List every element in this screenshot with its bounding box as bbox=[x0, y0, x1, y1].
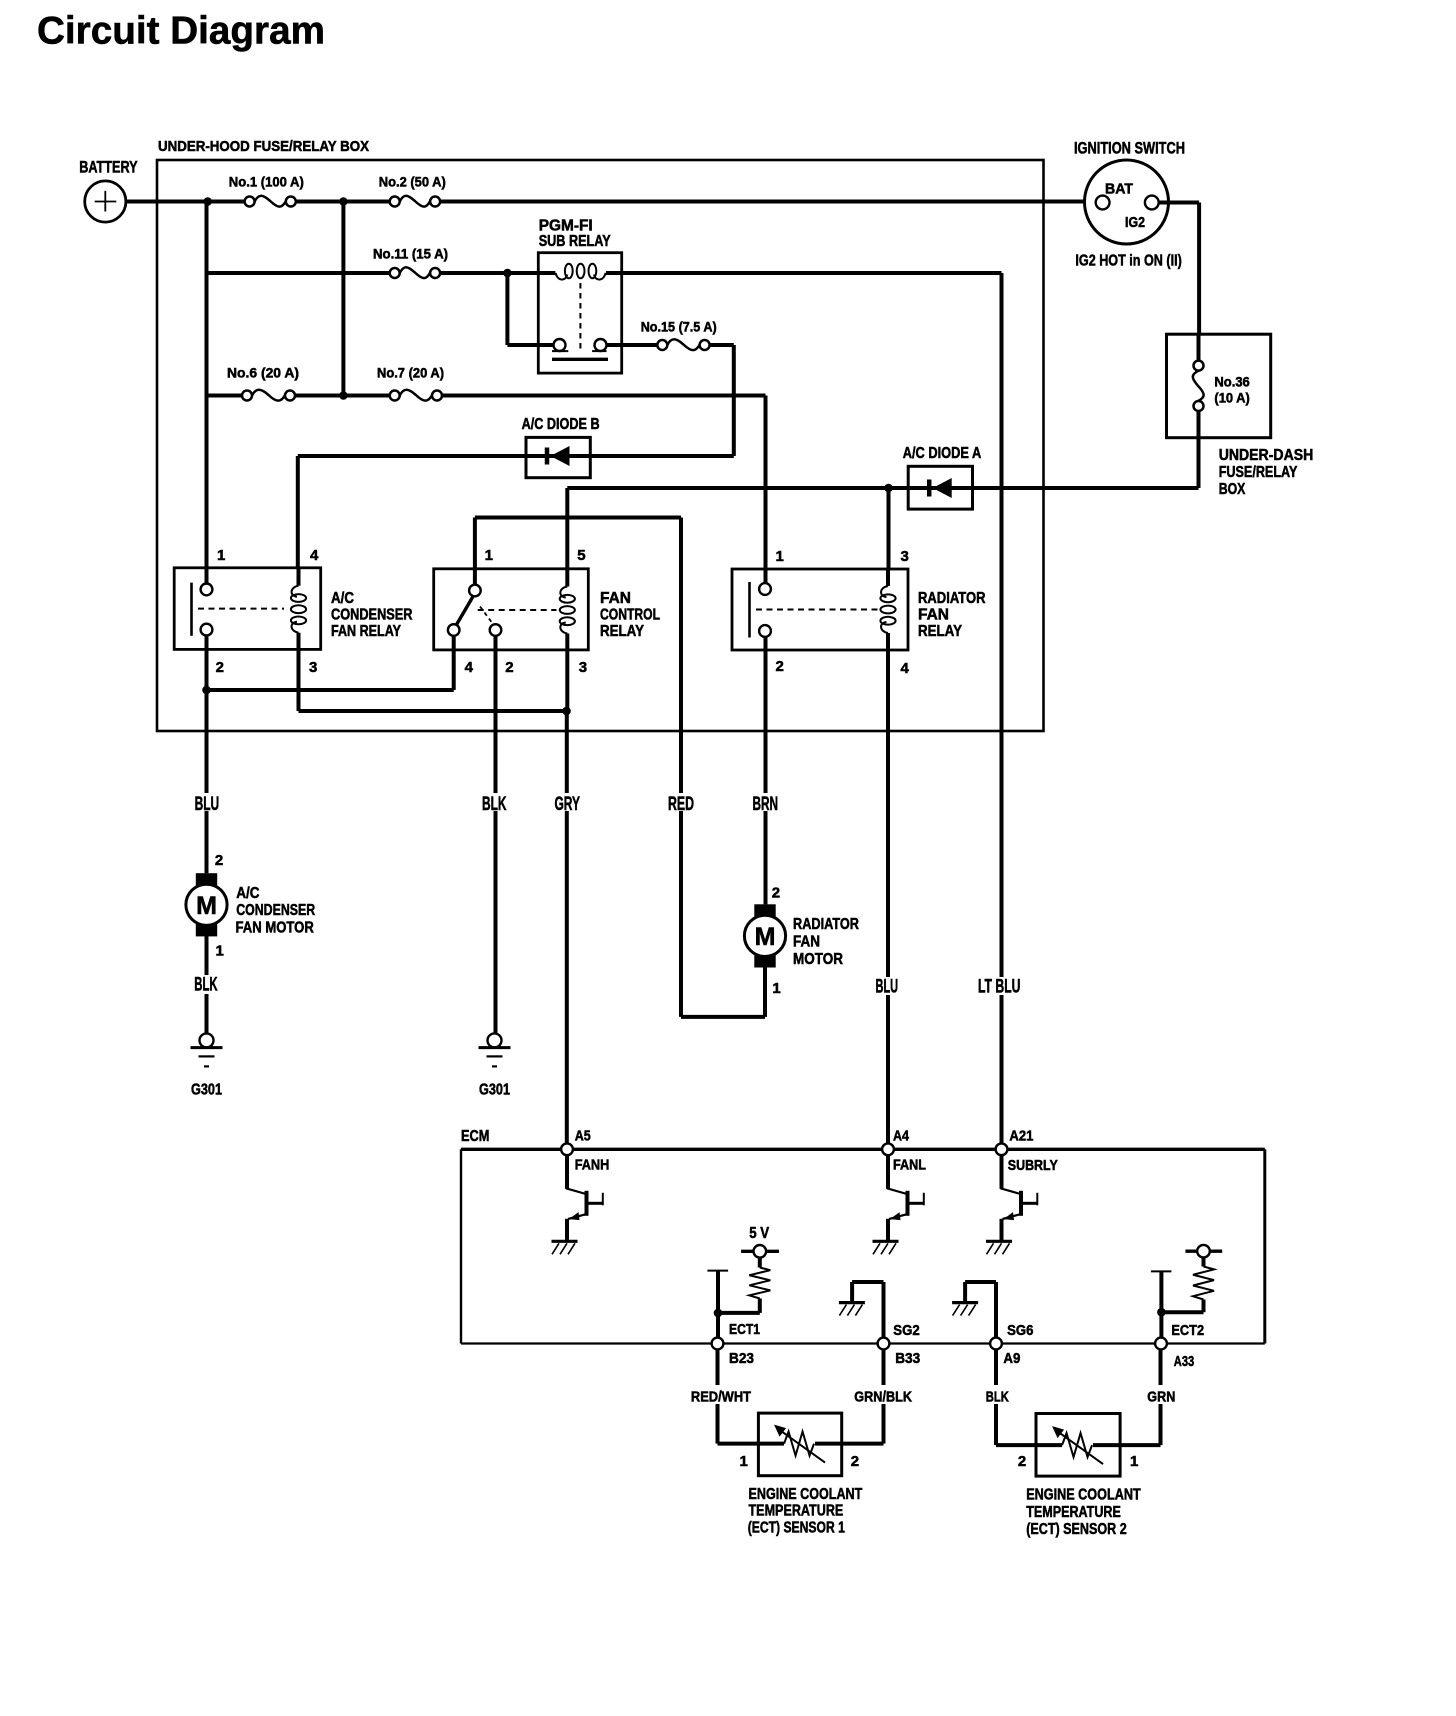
svg-text:A33: A33 bbox=[1174, 1353, 1194, 1370]
svg-text:No.6 (20 A): No.6 (20 A) bbox=[227, 365, 299, 381]
svg-text:FAN: FAN bbox=[600, 590, 631, 607]
svg-text:2: 2 bbox=[215, 852, 223, 869]
svg-text:TEMPERATURE: TEMPERATURE bbox=[1026, 1504, 1121, 1521]
svg-text:CONTROL: CONTROL bbox=[600, 607, 660, 624]
svg-text:1: 1 bbox=[1130, 1453, 1138, 1470]
svg-text:2: 2 bbox=[776, 658, 784, 675]
svg-text:B23: B23 bbox=[729, 1350, 754, 1367]
svg-text:1: 1 bbox=[217, 547, 225, 564]
svg-text:RED/WHT: RED/WHT bbox=[691, 1389, 751, 1406]
svg-text:FAN: FAN bbox=[793, 934, 820, 951]
svg-text:ECT1: ECT1 bbox=[729, 1321, 760, 1338]
svg-text:LT BLU: LT BLU bbox=[978, 977, 1021, 998]
svg-text:Circuit Diagram: Circuit Diagram bbox=[37, 10, 325, 53]
svg-text:4: 4 bbox=[901, 660, 910, 677]
svg-text:No.36: No.36 bbox=[1214, 374, 1250, 390]
svg-text:A/C: A/C bbox=[236, 885, 260, 902]
svg-text:A/C: A/C bbox=[331, 590, 354, 607]
svg-text:A5: A5 bbox=[575, 1128, 591, 1145]
svg-text:BAT: BAT bbox=[1105, 181, 1133, 198]
svg-text:No.11 (15 A): No.11 (15 A) bbox=[373, 246, 448, 262]
svg-text:3: 3 bbox=[309, 659, 317, 676]
svg-text:(10 A): (10 A) bbox=[1214, 390, 1249, 406]
svg-text:BOX: BOX bbox=[1219, 481, 1246, 498]
svg-text:G301: G301 bbox=[479, 1081, 510, 1098]
svg-text:5 V: 5 V bbox=[749, 1225, 769, 1242]
svg-text:GRN: GRN bbox=[1147, 1388, 1175, 1405]
svg-text:2: 2 bbox=[505, 659, 513, 676]
svg-text:SG2: SG2 bbox=[893, 1322, 919, 1339]
svg-text:ENGINE COOLANT: ENGINE COOLANT bbox=[749, 1486, 863, 1503]
svg-text:CONDENSER: CONDENSER bbox=[331, 607, 413, 624]
svg-text:GRN/BLK: GRN/BLK bbox=[854, 1389, 912, 1406]
svg-text:G301: G301 bbox=[191, 1081, 222, 1098]
svg-text:2: 2 bbox=[216, 659, 224, 676]
svg-text:1: 1 bbox=[216, 943, 224, 960]
svg-text:UNDER-DASH: UNDER-DASH bbox=[1219, 447, 1314, 464]
svg-text:M: M bbox=[196, 892, 217, 920]
svg-text:(ECT) SENSOR 2: (ECT) SENSOR 2 bbox=[1026, 1521, 1127, 1538]
svg-text:1: 1 bbox=[772, 980, 780, 997]
svg-text:UNDER-HOOD FUSE/RELAY BOX: UNDER-HOOD FUSE/RELAY BOX bbox=[158, 138, 369, 155]
svg-text:A/C DIODE A: A/C DIODE A bbox=[903, 445, 982, 462]
svg-text:FANH: FANH bbox=[575, 1157, 610, 1174]
svg-text:ECT2: ECT2 bbox=[1171, 1322, 1204, 1339]
svg-text:A4: A4 bbox=[893, 1128, 910, 1145]
svg-text:IG2: IG2 bbox=[1125, 214, 1145, 231]
svg-text:B33: B33 bbox=[895, 1350, 920, 1367]
svg-text:2: 2 bbox=[851, 1453, 859, 1470]
svg-text:BATTERY: BATTERY bbox=[79, 158, 138, 177]
svg-text:No.15 (7.5 A): No.15 (7.5 A) bbox=[641, 319, 717, 335]
svg-text:1: 1 bbox=[740, 1453, 748, 1470]
svg-text:MOTOR: MOTOR bbox=[793, 951, 843, 968]
svg-text:SG6: SG6 bbox=[1007, 1322, 1033, 1339]
svg-text:M: M bbox=[755, 923, 776, 951]
svg-text:RADIATOR: RADIATOR bbox=[918, 590, 986, 607]
svg-text:5: 5 bbox=[577, 547, 585, 564]
svg-text:1: 1 bbox=[485, 547, 493, 564]
svg-text:SUB RELAY: SUB RELAY bbox=[539, 233, 611, 250]
svg-text:2: 2 bbox=[1018, 1453, 1026, 1470]
svg-text:BLK: BLK bbox=[194, 975, 217, 996]
svg-text:4: 4 bbox=[310, 547, 319, 564]
svg-text:CONDENSER: CONDENSER bbox=[236, 902, 315, 919]
svg-text:FAN RELAY: FAN RELAY bbox=[331, 623, 401, 640]
svg-text:IGNITION SWITCH: IGNITION SWITCH bbox=[1074, 139, 1185, 158]
svg-text:A/C DIODE B: A/C DIODE B bbox=[522, 416, 600, 433]
svg-text:(ECT) SENSOR 1: (ECT) SENSOR 1 bbox=[748, 1520, 845, 1537]
svg-text:FAN: FAN bbox=[918, 607, 949, 624]
svg-text:ENGINE COOLANT: ENGINE COOLANT bbox=[1026, 1487, 1141, 1504]
svg-text:RELAY: RELAY bbox=[918, 623, 962, 640]
svg-text:TEMPERATURE: TEMPERATURE bbox=[749, 1502, 844, 1519]
svg-text:SUBRLY: SUBRLY bbox=[1008, 1157, 1058, 1174]
svg-text:A21: A21 bbox=[1009, 1128, 1033, 1145]
svg-text:RELAY: RELAY bbox=[600, 623, 644, 640]
svg-text:A9: A9 bbox=[1003, 1350, 1020, 1367]
svg-text:BLU: BLU bbox=[876, 977, 899, 998]
svg-text:IG2 HOT in ON (II): IG2 HOT in ON (II) bbox=[1075, 253, 1181, 270]
svg-text:No.2 (50 A): No.2 (50 A) bbox=[379, 174, 446, 190]
svg-text:BLK: BLK bbox=[986, 1388, 1009, 1405]
svg-text:FUSE/RELAY: FUSE/RELAY bbox=[1219, 464, 1298, 481]
svg-text:4: 4 bbox=[465, 659, 474, 676]
svg-text:No.7 (20 A): No.7 (20 A) bbox=[377, 365, 444, 381]
svg-text:ECM: ECM bbox=[461, 1128, 489, 1145]
svg-text:FANL: FANL bbox=[893, 1157, 926, 1174]
svg-text:3: 3 bbox=[901, 548, 909, 565]
svg-text:2: 2 bbox=[772, 884, 780, 901]
svg-text:1: 1 bbox=[776, 548, 784, 565]
svg-text:3: 3 bbox=[579, 659, 587, 676]
svg-text:No.1 (100 A): No.1 (100 A) bbox=[229, 174, 304, 190]
svg-text:RADIATOR: RADIATOR bbox=[793, 916, 859, 933]
svg-text:FAN MOTOR: FAN MOTOR bbox=[236, 919, 315, 936]
